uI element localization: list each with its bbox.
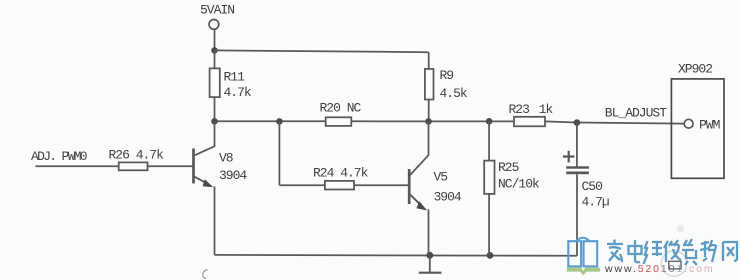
svg-text:R26 4.7k: R26 4.7k [109,147,165,162]
wire bottom rail [215,254,577,257]
wire 5VAIN terminal to top rail [214,29,216,51]
svg-text:4.7k: 4.7k [224,85,252,100]
junction R11 bottom [211,118,218,125]
wire top rail [215,50,429,52]
wire top rail to R9 [428,52,430,69]
capacitor C50 [576,123,578,167]
watermark book base [567,268,600,276]
pin PWM [684,119,693,128]
resistor R11 [214,50,216,68]
resistor R9 [425,69,434,100]
svg-text:BL_ADJUST: BL_ADJUST [605,106,667,121]
resistor R25 [488,121,490,160]
junction R9/V5 collector [425,118,432,125]
svg-text:R9: R9 [440,68,454,83]
resistor R26 [119,162,148,170]
svg-text:R23: R23 [509,102,530,117]
watermark text (stylized glyphs) [607,239,737,265]
svg-text:C50: C50 [582,179,603,194]
junction R25 bottom [487,252,494,259]
svg-text:R24 4.7k: R24 4.7k [313,165,369,180]
junction R25 top [486,118,493,125]
resistor R23 [514,117,545,127]
junction node A (R20/R24 branch) [276,118,283,125]
svg-text:NC/10k: NC/10k [498,177,540,192]
transistor V8 [192,149,195,184]
watermark stamp circle [661,251,686,276]
svg-text:1k: 1k [539,102,554,117]
junction top rail left [211,47,218,54]
svg-text:R11: R11 [224,69,246,84]
svg-text:R20 NC: R20 NC [320,100,362,115]
ground [429,255,431,272]
wire mid bus [215,120,326,122]
5VAIN terminal [209,20,219,30]
artifact mark bottom left [203,270,208,279]
resistor R24 [325,181,354,190]
svg-text:5VAIN: 5VAIN [200,2,234,17]
svg-text:3904: 3904 [434,190,462,205]
wire input [36,165,119,167]
svg-text:XP902: XP902 [678,62,712,77]
svg-text:V5: V5 [434,169,448,184]
svg-text:PWM: PWM [699,118,720,133]
svg-text:R25: R25 [498,160,519,175]
watermark book logo [568,238,597,267]
svg-text:4.5k: 4.5k [440,86,468,101]
svg-text:ADJ. PWM0: ADJ. PWM0 [31,149,87,164]
wire R26 to V8 base [148,165,193,167]
wire branch to R24 [278,121,280,185]
transistor V5 [408,169,411,204]
resistor R20 [326,117,352,126]
svg-text:4.7µ: 4.7µ [582,194,609,209]
svg-text:3904: 3904 [219,168,247,183]
junction C50 top [574,119,581,126]
svg-text:V8: V8 [219,151,233,166]
svg-text:www.520101.com: www.520101.com [604,263,715,275]
junction ground [426,252,433,259]
stamp dark patch over url digits [669,261,681,269]
